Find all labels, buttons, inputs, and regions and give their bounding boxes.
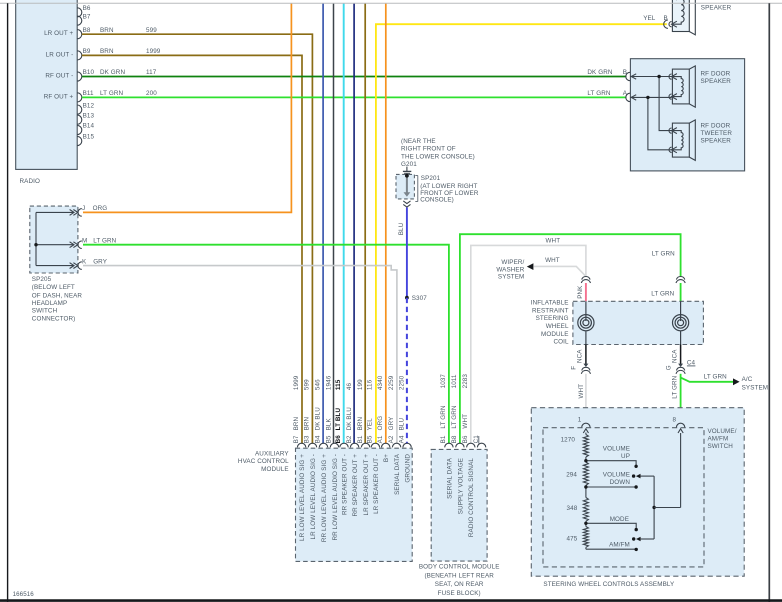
svg-text:MODE: MODE bbox=[610, 516, 629, 523]
svg-text:LT GRN: LT GRN bbox=[671, 375, 678, 398]
splice pack SP205 box bbox=[30, 206, 78, 273]
svg-text:LT GRN: LT GRN bbox=[100, 90, 123, 97]
inflatable restraint steering wheel module coil box bbox=[531, 300, 704, 346]
svg-text:YEL: YEL bbox=[643, 15, 656, 22]
auxiliary HVAC control module box bbox=[296, 448, 413, 561]
svg-text:4340: 4340 bbox=[377, 375, 384, 390]
svg-text:1999: 1999 bbox=[293, 375, 300, 390]
svg-text:STEERING WHEEL CONTROLS ASSEMB: STEERING WHEEL CONTROLS ASSEMBLY bbox=[543, 581, 675, 588]
wire B9 BRN 1999 (radio LR OUT- to HVAC B7) bbox=[82, 48, 302, 444]
radio pin B15 bbox=[77, 134, 94, 146]
splice S307 bbox=[405, 295, 427, 302]
svg-text:SP205: SP205 bbox=[32, 276, 52, 283]
svg-text:B13: B13 bbox=[83, 112, 95, 119]
HVAC pin B7 BRN 1999 bbox=[293, 375, 306, 541]
svg-text:B: B bbox=[664, 15, 668, 22]
connector pin 1 bbox=[578, 417, 590, 434]
svg-text:A/C: A/C bbox=[742, 376, 753, 383]
svg-text:BRN: BRN bbox=[100, 27, 114, 34]
svg-text:RR LOW LEVEL AUDIO SIG +: RR LOW LEVEL AUDIO SIG + bbox=[321, 454, 328, 542]
RF door speaker bbox=[669, 66, 731, 107]
svg-text:VOLUME: VOLUME bbox=[603, 471, 630, 478]
svg-text:MODULE: MODULE bbox=[261, 466, 289, 473]
coil (left clockspring) bbox=[578, 301, 594, 344]
svg-text:LR LOW LEVEL AUDIO SIG +: LR LOW LEVEL AUDIO SIG + bbox=[299, 454, 306, 541]
HVAC pin B1 BRN 199 bbox=[357, 379, 370, 516]
connector pin 8 bbox=[673, 417, 685, 434]
junction node (speaker B branch) bbox=[657, 75, 660, 78]
svg-text:SWITCH: SWITCH bbox=[708, 443, 734, 450]
svg-text:294: 294 bbox=[566, 471, 577, 478]
svg-text:NCA: NCA bbox=[576, 349, 583, 363]
radio pin B12 bbox=[77, 102, 94, 114]
svg-text:LR LOW LEVEL AUDIO SIG -: LR LOW LEVEL AUDIO SIG - bbox=[310, 454, 317, 539]
connector B at top speaker, YEL wire end bbox=[643, 15, 668, 28]
HVAC pin A1 ORG 4340 bbox=[377, 375, 390, 462]
speaker (top right, partial) bbox=[669, 0, 732, 35]
svg-text:INFLATABLE: INFLATABLE bbox=[531, 300, 569, 307]
svg-text:RADIO CONTROL SIGNAL: RADIO CONTROL SIGNAL bbox=[468, 458, 475, 537]
svg-text:BRN: BRN bbox=[100, 48, 114, 55]
svg-text:WHEEL: WHEEL bbox=[546, 323, 569, 330]
wire LT GRN (connector to coil module) bbox=[651, 283, 680, 301]
splice crimp symbol bbox=[403, 201, 410, 207]
svg-text:BLU: BLU bbox=[398, 417, 405, 430]
svg-text:A2: A2 bbox=[388, 435, 395, 443]
svg-text:AUXILIARY: AUXILIARY bbox=[255, 451, 289, 458]
svg-text:DK BLU: DK BLU bbox=[315, 407, 322, 431]
svg-text:SYSTEM: SYSTEM bbox=[498, 274, 525, 281]
body control module box bbox=[431, 449, 487, 561]
junction node inside SP205 bbox=[34, 243, 37, 246]
HVAC module label bbox=[238, 451, 289, 473]
svg-text:J: J bbox=[82, 205, 85, 212]
svg-text:1270: 1270 bbox=[561, 437, 576, 444]
svg-text:SP201: SP201 bbox=[421, 175, 441, 182]
wire B11 LT GRN 200 (radio RF OUT+ to RF door speaker A) bbox=[82, 90, 627, 97]
svg-text:A1: A1 bbox=[377, 435, 384, 443]
svg-text:B9: B9 bbox=[83, 48, 91, 55]
svg-text:B8: B8 bbox=[451, 435, 458, 443]
resistor 1270 bbox=[561, 433, 589, 461]
svg-text:HEADLAMP: HEADLAMP bbox=[32, 300, 67, 307]
wire DK BLU 46 (to HVAC B2) bbox=[353, 3, 355, 443]
svg-text:B11: B11 bbox=[83, 90, 94, 97]
SP201 internal arrow bbox=[404, 174, 411, 197]
svg-text:SEAT, ON REAR: SEAT, ON REAR bbox=[435, 581, 484, 588]
BCM pin B8 LT GRN 1011 bbox=[451, 374, 464, 514]
svg-text:COIL: COIL bbox=[553, 339, 568, 346]
svg-text:RF OUT -: RF OUT - bbox=[45, 73, 73, 80]
svg-text:599: 599 bbox=[304, 379, 311, 390]
svg-text:RIGHT FRONT OF: RIGHT FRONT OF bbox=[401, 146, 456, 153]
svg-text:BRN: BRN bbox=[293, 416, 300, 430]
svg-text:RF DOOR: RF DOOR bbox=[701, 122, 731, 129]
BCM label bbox=[419, 564, 500, 597]
connector pin B (DK GRN into speaker box) bbox=[587, 69, 630, 81]
volume switch arm bbox=[632, 474, 654, 479]
svg-text:FUSE BLOCK): FUSE BLOCK) bbox=[438, 590, 481, 597]
radio pin B11 bbox=[44, 90, 94, 102]
svg-text:B4: B4 bbox=[315, 435, 322, 443]
wire YEL 116 (speaker B to HVAC B5) bbox=[376, 24, 667, 444]
svg-text:B6: B6 bbox=[83, 5, 91, 12]
branch LT GRN to A/C system bbox=[681, 373, 769, 391]
svg-text:K: K bbox=[82, 258, 87, 265]
svg-text:SPEAKER: SPEAKER bbox=[701, 4, 732, 11]
HVAC pin A4 BLU 2250 bbox=[398, 375, 411, 482]
svg-text:115: 115 bbox=[335, 379, 342, 390]
wires inside speaker box bbox=[630, 77, 671, 150]
svg-text:DK GRN: DK GRN bbox=[587, 69, 612, 76]
BCM pin B1 LT GRN 1037 bbox=[440, 374, 453, 499]
svg-text:LT BLU: LT BLU bbox=[335, 408, 342, 431]
branch to wiper/washer system bbox=[496, 257, 586, 281]
svg-text:LR OUT +: LR OUT + bbox=[44, 30, 73, 37]
svg-text:WHT: WHT bbox=[578, 384, 585, 399]
coil (right clockspring) bbox=[673, 301, 689, 344]
svg-text:SYSTEM: SYSTEM bbox=[742, 384, 769, 391]
svg-text:1011: 1011 bbox=[451, 374, 458, 388]
svg-text:117: 117 bbox=[146, 69, 157, 76]
wire B8 BRN 599 (radio LR OUT+ to HVAC B3) bbox=[82, 27, 313, 444]
connector pin A (LT GRN into speaker box) bbox=[587, 90, 630, 102]
svg-text:VOLUME: VOLUME bbox=[603, 445, 630, 452]
wire M LT GRN 1037 (SP205 to BCM B1) bbox=[83, 245, 449, 444]
wire PNK (connector to coil module) bbox=[577, 283, 586, 301]
svg-text:TWEETER: TWEETER bbox=[701, 130, 733, 137]
RF door tweeter speaker bbox=[669, 120, 732, 160]
mode/am-fm switch arm bbox=[632, 537, 654, 542]
wire BLU 2250 dashed (S307 to HVAC A4) bbox=[406, 298, 408, 444]
resistor 294 bbox=[566, 462, 588, 487]
svg-text:LT GRN: LT GRN bbox=[704, 373, 727, 380]
svg-text:THE LOWER CONSOLE): THE LOWER CONSOLE) bbox=[401, 153, 475, 160]
svg-text:S307: S307 bbox=[412, 295, 428, 302]
am/fm contact bbox=[586, 542, 638, 552]
svg-text:B6: B6 bbox=[335, 435, 342, 444]
volume/am-fm switch box bbox=[543, 428, 737, 567]
HVAC pin A2 GRY 2259 bbox=[388, 375, 401, 495]
svg-text:B1: B1 bbox=[440, 435, 447, 443]
svg-text:SERIAL DATA: SERIAL DATA bbox=[394, 453, 401, 495]
svg-text:B12: B12 bbox=[83, 102, 95, 109]
HVAC pin B4 DK BLU 546 bbox=[315, 379, 328, 542]
box edge arrows bbox=[631, 74, 636, 100]
mode contact bbox=[584, 516, 638, 531]
wire LT GRN (C4 to steering controls pin 8) bbox=[671, 374, 680, 424]
svg-text:B: B bbox=[623, 69, 627, 76]
svg-text:B14: B14 bbox=[83, 123, 95, 130]
ground G201 bbox=[401, 138, 475, 173]
radio box bbox=[16, 0, 77, 185]
connector pin J bbox=[78, 205, 107, 216]
svg-text:ORG: ORG bbox=[93, 205, 108, 212]
svg-text:RF DOOR: RF DOOR bbox=[701, 70, 731, 77]
svg-text:46: 46 bbox=[346, 382, 353, 390]
SP205 internal bus bbox=[36, 210, 78, 269]
svg-text:A: A bbox=[623, 90, 628, 97]
inline connector (LT GRN) bbox=[676, 277, 685, 283]
svg-text:RF OUT +: RF OUT + bbox=[44, 93, 74, 100]
svg-text:2283: 2283 bbox=[462, 374, 469, 389]
wire BRN 199 (to HVAC B1) bbox=[364, 3, 366, 443]
svg-text:1946: 1946 bbox=[326, 375, 333, 390]
BCM pin B6 WHT 2283 bbox=[462, 374, 475, 537]
svg-text:1: 1 bbox=[578, 417, 582, 424]
volume down contact bbox=[584, 471, 638, 488]
svg-text:1037: 1037 bbox=[440, 374, 447, 389]
svg-text:WASHER: WASHER bbox=[496, 266, 524, 273]
wire ORG 4340 (to HVAC A1) bbox=[385, 3, 387, 443]
svg-text:BRN: BRN bbox=[304, 416, 311, 430]
connector pin F bbox=[581, 367, 590, 373]
svg-text:LT GRN: LT GRN bbox=[651, 291, 674, 298]
RF door speaker box bbox=[630, 59, 744, 171]
svg-text:M: M bbox=[82, 237, 87, 244]
switch common bus bbox=[652, 433, 680, 539]
radio pin B6 bbox=[77, 5, 91, 17]
radio pin B10 bbox=[45, 69, 94, 81]
svg-text:UP: UP bbox=[621, 453, 630, 460]
svg-text:B7: B7 bbox=[83, 13, 91, 20]
svg-text:LR SPEAKER OUT +: LR SPEAKER OUT + bbox=[363, 454, 370, 516]
HVAC pin B5 YEL 116 bbox=[367, 379, 380, 514]
svg-text:B15: B15 bbox=[83, 134, 95, 141]
resistor 348 bbox=[566, 487, 588, 523]
svg-text:B10: B10 bbox=[83, 69, 95, 76]
svg-text:SERIAL DATA: SERIAL DATA bbox=[446, 457, 453, 499]
wire LT GRN 1011 (BCM B8 to steering coil) bbox=[460, 234, 681, 444]
svg-text:RESTRAINT: RESTRAINT bbox=[532, 307, 569, 314]
svg-text:HVAC CONTROL: HVAC CONTROL bbox=[238, 458, 289, 465]
BCM pin C1 bbox=[473, 435, 486, 448]
wire J ORG (SP205 to top) bbox=[83, 3, 291, 212]
svg-text:B8: B8 bbox=[83, 27, 91, 34]
HVAC pin B6 LT BLU 115 bbox=[335, 379, 348, 515]
connector pin M bbox=[78, 237, 117, 248]
svg-text:LT GRN: LT GRN bbox=[451, 405, 458, 428]
HVAC pin B5 BLK 1946 bbox=[326, 375, 339, 540]
radio pin B13 bbox=[77, 112, 94, 124]
svg-text:DK BLU: DK BLU bbox=[346, 407, 353, 431]
resistor 475 bbox=[566, 523, 588, 549]
svg-text:(BELOW LEFT: (BELOW LEFT bbox=[32, 284, 75, 291]
svg-text:CONSOLE): CONSOLE) bbox=[420, 196, 454, 203]
connector C4 pin G bbox=[676, 360, 696, 374]
svg-text:WHT: WHT bbox=[462, 414, 469, 429]
svg-text:VOLUME/: VOLUME/ bbox=[708, 428, 737, 435]
radio pin B14 bbox=[77, 123, 94, 135]
wire K GRY 2259 (SP205 to HVAC A2) bbox=[83, 266, 397, 444]
svg-text:B7: B7 bbox=[293, 435, 300, 443]
radio pin B7 bbox=[77, 13, 91, 25]
svg-text:WHT: WHT bbox=[546, 238, 561, 245]
svg-text:RR LOW LEVEL AUDIO SIG -: RR LOW LEVEL AUDIO SIG - bbox=[332, 454, 339, 541]
radio pin B8 bbox=[44, 27, 91, 39]
svg-text:CONNECTOR): CONNECTOR) bbox=[32, 316, 76, 323]
svg-text:2259: 2259 bbox=[388, 375, 395, 390]
volume up contact bbox=[584, 445, 638, 468]
svg-text:OF DASH, NEAR: OF DASH, NEAR bbox=[32, 292, 83, 299]
svg-text:YEL: YEL bbox=[367, 418, 374, 431]
SP201 label bbox=[415, 175, 479, 204]
svg-text:WIPER/: WIPER/ bbox=[501, 259, 524, 266]
svg-text:LT GRN: LT GRN bbox=[587, 90, 610, 97]
wire LT BLU 115 (to HVAC B6, highlighted circuit) bbox=[343, 3, 345, 443]
steering wheel controls assembly box bbox=[531, 408, 744, 588]
wire NCA pin F bbox=[570, 345, 588, 370]
svg-text:GRY: GRY bbox=[93, 258, 108, 265]
wire BLK 1946 (to HVAC B5) bbox=[333, 3, 335, 443]
connector pin K bbox=[78, 258, 108, 269]
svg-text:LR OUT -: LR OUT - bbox=[46, 51, 74, 58]
svg-text:GROUND: GROUND bbox=[405, 454, 412, 483]
svg-text:RADIO: RADIO bbox=[20, 178, 40, 185]
svg-text:DK GRN: DK GRN bbox=[100, 69, 125, 76]
inline connector (WHT/PNK) bbox=[581, 277, 590, 283]
svg-text:ORG: ORG bbox=[377, 416, 384, 431]
svg-text:BLK: BLK bbox=[326, 417, 333, 430]
svg-text:STEERING: STEERING bbox=[536, 315, 569, 322]
svg-text:546: 546 bbox=[315, 379, 322, 390]
svg-text:SUPPLY VOLTAGE: SUPPLY VOLTAGE bbox=[457, 458, 464, 514]
wire WHT 2283 (BCM B6 to wiper & coil) bbox=[471, 238, 586, 444]
svg-text:SPEAKER: SPEAKER bbox=[701, 138, 732, 145]
svg-text:B+: B+ bbox=[383, 454, 390, 462]
wire DK BLU 546 (to HVAC B4) bbox=[322, 3, 324, 443]
svg-text:G201: G201 bbox=[401, 161, 417, 168]
wire NCA pin G bbox=[665, 345, 683, 371]
svg-text:DOWN: DOWN bbox=[610, 479, 631, 486]
svg-text:AM/FM: AM/FM bbox=[708, 436, 729, 443]
svg-text:1999: 1999 bbox=[146, 48, 161, 55]
svg-text:B1: B1 bbox=[357, 435, 364, 443]
junction node (speaker A branch) bbox=[646, 96, 649, 99]
svg-text:B5: B5 bbox=[326, 435, 333, 443]
svg-text:WHT: WHT bbox=[545, 257, 560, 264]
wire BLU (SP201 to S307) bbox=[398, 208, 407, 298]
svg-text:B5: B5 bbox=[367, 435, 374, 443]
svg-text:GRY: GRY bbox=[388, 416, 395, 431]
svg-text:2250: 2250 bbox=[398, 375, 405, 390]
svg-text:199: 199 bbox=[357, 379, 364, 390]
svg-text:G: G bbox=[665, 365, 672, 370]
radio pin B9 bbox=[46, 48, 91, 60]
svg-text:LR SPEAKER OUT -: LR SPEAKER OUT - bbox=[373, 454, 380, 514]
svg-text:MODULE: MODULE bbox=[541, 331, 569, 338]
svg-text:166516: 166516 bbox=[13, 591, 35, 598]
svg-text:348: 348 bbox=[566, 505, 577, 512]
svg-text:599: 599 bbox=[146, 27, 157, 34]
svg-text:(BENEATH LEFT REAR: (BENEATH LEFT REAR bbox=[424, 573, 494, 580]
HVAC pin B3 BRN 599 bbox=[304, 379, 317, 540]
svg-text:LT GRN: LT GRN bbox=[652, 251, 675, 258]
SP205 label bbox=[32, 276, 83, 322]
svg-text:SPEAKER: SPEAKER bbox=[701, 78, 732, 85]
svg-text:116: 116 bbox=[367, 379, 374, 390]
svg-text:A4: A4 bbox=[398, 435, 405, 443]
svg-text:LT GRN: LT GRN bbox=[440, 405, 447, 428]
diagram id 166516 bbox=[13, 591, 35, 598]
svg-text:LT GRN: LT GRN bbox=[93, 237, 116, 244]
svg-text:B2: B2 bbox=[346, 435, 353, 443]
svg-text:RR SPEAKER OUT -: RR SPEAKER OUT - bbox=[341, 454, 348, 515]
svg-text:BRN: BRN bbox=[357, 416, 364, 430]
wire WHT (connector to steering controls pin 1) bbox=[578, 374, 586, 424]
svg-text:B6: B6 bbox=[462, 435, 469, 443]
svg-text:200: 200 bbox=[146, 90, 157, 97]
svg-text:B3: B3 bbox=[304, 435, 311, 443]
svg-text:BLU: BLU bbox=[398, 222, 405, 235]
svg-text:475: 475 bbox=[566, 536, 577, 543]
HVAC pin B2 DK BLU 46 bbox=[346, 382, 359, 516]
svg-text:(NEAR THE: (NEAR THE bbox=[401, 138, 436, 145]
svg-text:BODY CONTROL MODULE: BODY CONTROL MODULE bbox=[419, 564, 500, 571]
wire B10 DK GRN 117 (radio RF OUT- to RF door speaker B) bbox=[82, 69, 627, 76]
svg-text:AM/FM: AM/FM bbox=[609, 542, 630, 549]
svg-text:F: F bbox=[570, 366, 577, 370]
svg-text:PNK: PNK bbox=[577, 285, 584, 299]
svg-text:RR SPEAKER OUT +: RR SPEAKER OUT + bbox=[352, 454, 359, 517]
svg-text:NCA: NCA bbox=[672, 349, 679, 363]
splice pack SP201 box bbox=[396, 174, 414, 199]
svg-text:8: 8 bbox=[673, 417, 677, 424]
svg-text:SWITCH: SWITCH bbox=[32, 308, 58, 315]
